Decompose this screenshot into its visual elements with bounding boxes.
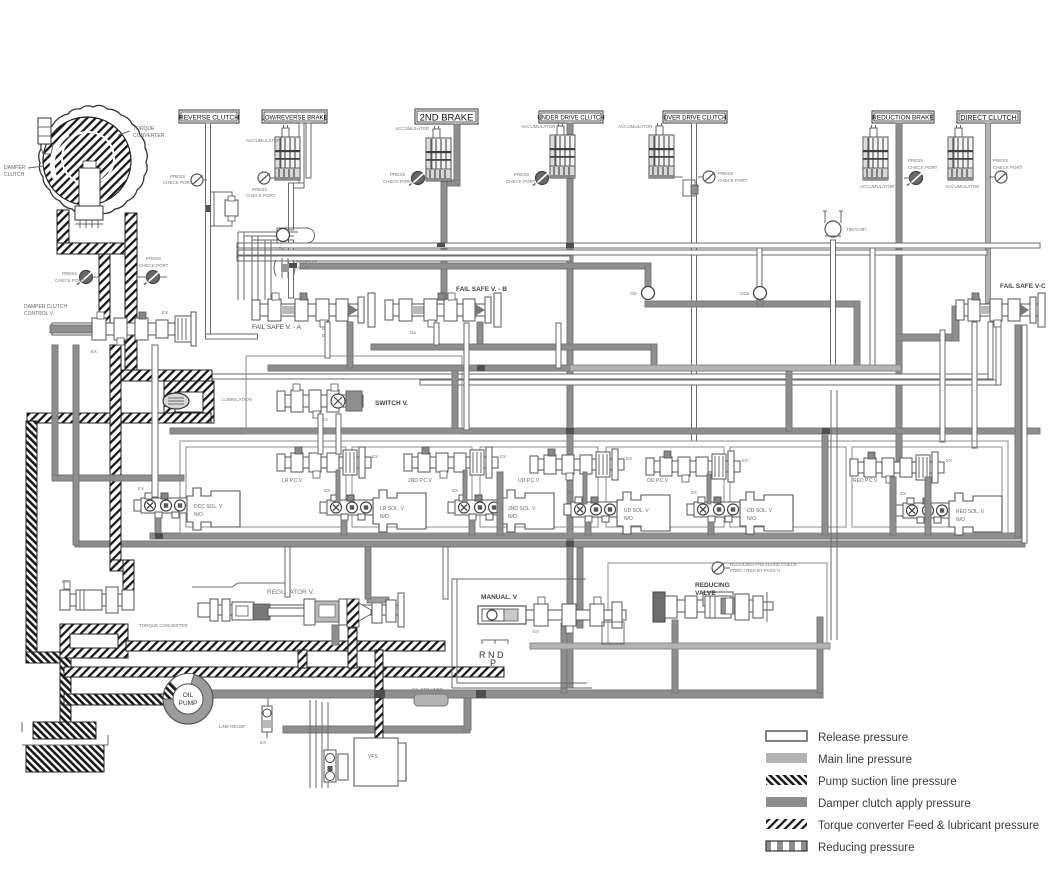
svg-text:OD P.C.V: OD P.C.V <box>647 478 669 484</box>
node fail safe A white nest verticals <box>238 232 271 300</box>
svg-text:MANUAL. V: MANUAL. V <box>481 594 518 601</box>
svg-text:ODa: ODa <box>740 291 750 296</box>
svg-text:REDUCING PRESSURE CHECK: REDUCING PRESSURE CHECK <box>730 562 797 567</box>
fail safe valve C <box>956 293 1045 327</box>
svg-text:PRESS: PRESS <box>146 256 161 261</box>
lubrication oval <box>163 393 189 409</box>
wire switch valve outlet gray vertical <box>452 371 458 431</box>
wire fail safe A stub gray <box>347 322 353 368</box>
line relief valve <box>262 706 272 738</box>
switch valve <box>277 384 363 418</box>
node box DCC group <box>186 447 346 527</box>
svg-text:CONVERTER: CONVERTER <box>133 133 165 139</box>
svg-text:EX: EX <box>533 629 539 634</box>
wire horizontal gray bundle y541 <box>75 541 1025 547</box>
svg-text:OD SOL. V: OD SOL. V <box>747 508 773 514</box>
legend swatch release pressure <box>766 731 807 741</box>
oil pan lip lines <box>22 722 108 745</box>
wire white drop to ball2 <box>757 248 762 290</box>
oil pump <box>163 673 213 724</box>
wire low/reverse down to check ball <box>289 183 294 230</box>
wire tc bottom outlet hatched vertical <box>125 213 137 378</box>
OD sol box <box>740 492 793 534</box>
svg-text:VFS: VFS <box>368 754 378 760</box>
accumulator low/reverse <box>275 125 300 180</box>
svg-text:2ND BRAKE: 2ND BRAKE <box>420 113 474 124</box>
leader damper clutch <box>28 166 44 168</box>
label box OVER DRIVE CLUTCH <box>663 111 727 123</box>
node big box PCV row outer <box>180 441 1008 533</box>
wire tc hatched horizontal to lubrication <box>120 370 212 381</box>
svg-text:CHECK PORT: CHECK PORT <box>718 178 748 183</box>
svg-text:ACCUMULATOR: ACCUMULATOR <box>246 138 281 143</box>
damping valve component <box>274 258 295 278</box>
wire gray drop to bundle x786 <box>786 371 792 431</box>
svg-text:CHECK PORT: CHECK PORT <box>139 263 169 268</box>
torque converter hub below <box>75 206 103 220</box>
wire fail safe C inlet riser <box>952 306 959 341</box>
svg-text:Main line pressure: Main line pressure <box>818 754 912 766</box>
svg-text:P: P <box>490 658 496 668</box>
svg-text:PRESS: PRESS <box>62 271 77 276</box>
torque converter left lug <box>38 118 51 144</box>
svg-text:CHECK PORT: CHECK PORT <box>506 179 536 184</box>
damper clutch control valve <box>50 312 196 346</box>
svg-text:REVERSE CLUTCH: REVERSE CLUTCH <box>179 115 239 122</box>
wire lr sol drop <box>341 520 347 535</box>
fail safe valve A <box>252 293 375 327</box>
svg-text:CLUTCH: CLUTCH <box>4 172 25 178</box>
node reducing area light rail <box>530 643 830 649</box>
svg-text:EX: EX <box>626 456 632 461</box>
label box REVERSE CLUTCH <box>179 110 239 123</box>
wire white vertical x872 <box>870 248 875 368</box>
legend swatch torque converter feed <box>766 819 807 829</box>
node box OD group <box>730 447 846 527</box>
wire 2nd brake gray feed vertical b <box>441 180 447 300</box>
svg-text:N/O: N/O <box>624 516 633 522</box>
svg-text:N/O: N/O <box>194 512 203 518</box>
overdrive bypass pocket <box>673 177 699 196</box>
wire hatched converter box elbow <box>60 624 128 658</box>
wire hatched link regulator to y668 <box>348 628 357 668</box>
svg-text:UD SOL. V: UD SOL. V <box>624 508 649 514</box>
svg-text:Torque converter Feed & lubric: Torque converter Feed & lubricant pressu… <box>818 820 1039 832</box>
wire hatched elbow bottom left <box>26 652 70 663</box>
svg-text:ACCUMULATOR: ACCUMULATOR <box>860 184 895 189</box>
LR solenoid spool <box>320 495 374 520</box>
svg-text:EX: EX <box>62 579 68 584</box>
wire horizontal white bundle third <box>237 256 570 261</box>
wire riser to fail safe C b <box>996 322 1001 385</box>
wire fail safe B outlet drop <box>651 344 657 369</box>
svg-text:LRa: LRa <box>276 246 285 251</box>
wire 2nd brake gray feed vertical a <box>454 124 460 184</box>
oil pan lower hatched <box>26 745 104 772</box>
wire fail safe C outlet vertical <box>1015 325 1021 537</box>
wire tc hatched vertical to damper valve <box>99 254 110 324</box>
node box UD group <box>606 447 724 527</box>
wire bundle to regulator gray <box>365 547 371 599</box>
node line relief stem <box>267 698 269 710</box>
wire lubrication long horizontal hatched <box>27 413 211 423</box>
wire bottom main line gray <box>205 690 823 698</box>
svg-text:PRESS: PRESS <box>908 158 923 163</box>
svg-text:N/O: N/O <box>747 516 756 522</box>
wire fail safe C stub down <box>972 322 977 448</box>
node big box around switch region <box>246 356 462 434</box>
wire horizontal white bundle second <box>237 250 987 255</box>
wire left tall hatched vertical <box>26 421 37 659</box>
2ND PCV spool <box>404 447 498 478</box>
svg-text:T88-5-087: T88-5-087 <box>846 227 867 232</box>
svg-text:LOW/REVERSE BRAKE: LOW/REVERSE BRAKE <box>261 116 327 122</box>
svg-text:FAIL SAFE V-C: FAIL SAFE V-C <box>1000 283 1046 290</box>
wire bundle to regulator white <box>285 547 290 597</box>
wire horizontal white bundle upper <box>237 243 1040 248</box>
svg-text:LUBRICATION: LUBRICATION <box>222 397 252 402</box>
svg-text:2ND P.C.V: 2ND P.C.V <box>408 478 432 484</box>
wire fail safe A stub white <box>325 322 330 358</box>
accumulator 2nd <box>426 126 451 181</box>
wire red sol drop <box>890 477 896 535</box>
svg-text:PRESS: PRESS <box>252 187 267 192</box>
wire direct clutch feed vertical <box>986 123 991 303</box>
wire hatched feed to pump <box>64 694 165 705</box>
svg-text:EX: EX <box>691 490 697 495</box>
wire horizontal white rail y380 <box>420 380 999 385</box>
svg-text:N/O: N/O <box>380 514 389 520</box>
wire fail safe C outlet vertical b <box>1022 325 1027 543</box>
wire lubrication loop hatched <box>164 381 214 423</box>
RED sol box <box>949 493 1002 535</box>
svg-text:CHECK PORT: CHECK PORT <box>383 179 413 184</box>
wire gray rail y303 <box>645 301 860 307</box>
label box DIRECT CLUTCH <box>957 111 1020 123</box>
torque converter hatched body <box>43 117 131 205</box>
node box 2ND group <box>480 447 598 527</box>
check ball lr damping <box>277 228 315 243</box>
svg-text:PORT / RED BY-PASS O: PORT / RED BY-PASS O <box>730 568 781 573</box>
wire fail safe B stub white right <box>464 323 469 430</box>
node manual valve white box <box>452 579 592 688</box>
svg-text:DIRECT CLUTCH: DIRECT CLUTCH <box>960 115 1016 122</box>
svg-text:EX: EX <box>900 491 906 496</box>
svg-text:FAIL SAFE V. - A: FAIL SAFE V. - A <box>252 324 302 331</box>
wire ud pcv drop gray <box>583 472 587 504</box>
svg-text:CHECK PORT: CHECK PORT <box>908 165 938 170</box>
svg-text:UD P.C.V: UD P.C.V <box>518 478 540 484</box>
svg-text:ACCUMULATOR: ACCUMULATOR <box>395 126 430 131</box>
wire horizontal gray main rail y366 <box>268 365 570 371</box>
wire gray elbow down to ball1 <box>645 266 651 290</box>
svg-text:EX: EX <box>260 740 266 745</box>
wire hatched link y650 to y668 <box>298 650 307 668</box>
svg-text:EX: EX <box>372 454 378 459</box>
reducing valve <box>653 592 773 622</box>
UD PCV spool <box>530 449 624 480</box>
node right white risers <box>831 390 837 640</box>
check port overdrive <box>703 171 715 183</box>
svg-text:ACCUMULATOR: ACCUMULATOR <box>521 124 556 129</box>
svg-text:OD: OD <box>630 291 638 296</box>
svg-text:Reducing pressure: Reducing pressure <box>818 842 915 854</box>
OD solenoid spool <box>687 497 741 522</box>
svg-text:EX: EX <box>162 310 168 315</box>
wire reducing drop gray left <box>561 623 567 693</box>
svg-text:VALVE: VALVE <box>296 265 310 270</box>
svg-text:2ND SOL. V: 2ND SOL. V <box>508 506 536 512</box>
svg-text:EX: EX <box>500 454 506 459</box>
svg-text:DAMPER: DAMPER <box>4 165 26 171</box>
wire 2nd sol drop <box>469 520 475 535</box>
node vfs white risers <box>310 700 328 788</box>
legend swatch reducing pressure <box>766 841 807 851</box>
wire low/reverse brake feed vertical b <box>306 123 311 178</box>
wire switch to lr pcv white <box>318 414 323 454</box>
node reducing valve white box <box>608 563 827 643</box>
node box RED group <box>852 447 1002 527</box>
wire lr pcv drop <box>497 472 503 535</box>
wire gray drop x857 to rail <box>854 301 860 368</box>
torque converter hub ticks <box>75 220 103 228</box>
wire tc outlet left hatched vertical <box>57 210 69 248</box>
label box 2ND BRAKE <box>415 109 478 124</box>
wire reduction brake gray feed vertical <box>896 123 902 463</box>
svg-text:Pump suction line pressure: Pump suction line pressure <box>818 776 957 788</box>
svg-text:EX: EX <box>568 490 574 495</box>
regulator valve <box>192 583 404 627</box>
check port reducing <box>712 562 724 574</box>
svg-text:DCC SOL. V: DCC SOL. V <box>194 504 223 510</box>
svg-text:CONTROL V.: CONTROL V. <box>24 311 54 317</box>
wire riser to fail safe C a <box>988 322 993 379</box>
svg-text:LR SOL. V: LR SOL. V <box>380 506 405 512</box>
check port damper left dark <box>77 271 93 285</box>
svg-text:DAMPING: DAMPING <box>296 259 318 264</box>
svg-text:N/O: N/O <box>508 514 517 520</box>
accumulator reduction <box>863 125 888 180</box>
wire hatched drop to vfs <box>375 650 383 738</box>
wire od sol drop <box>708 522 714 535</box>
svg-text:REDUCTION BRAKE: REDUCTION BRAKE <box>872 115 933 122</box>
label box UNDER DRIVE CLUTCH <box>537 111 604 123</box>
wire horizontal white rail y374 <box>186 374 993 379</box>
svg-text:PRESS: PRESS <box>514 172 529 177</box>
LR sol box <box>373 490 426 532</box>
wire switch to pcv white b <box>336 414 341 454</box>
wire hatched vertical to pan <box>60 652 71 732</box>
RED PCV spool <box>850 452 944 483</box>
wire horizontal gray run y265 <box>300 263 651 269</box>
wire damper valve gray out a <box>52 345 58 478</box>
wire reverse clutch feed vertical <box>206 123 211 339</box>
svg-text:REGULATOR V.: REGULATOR V. <box>267 589 314 596</box>
wire regulator gray drop <box>332 625 339 645</box>
wire ud sol drop <box>585 522 591 535</box>
wire fail safe B stub white mid <box>556 323 561 368</box>
wire reduction elbow to fail safe C <box>896 334 958 341</box>
svg-text:VALVE: VALVE <box>695 590 716 597</box>
label box REDUCTION BRAKE <box>872 111 934 123</box>
svg-text:OVER DRIVE CLUTCH: OVER DRIVE CLUTCH <box>663 116 726 122</box>
svg-text:OIL: OIL <box>183 692 194 699</box>
svg-text:LINE RELIEF: LINE RELIEF <box>219 724 246 729</box>
wire hatched elbow to relief <box>110 560 134 571</box>
wire hatched long run y669 <box>64 667 504 677</box>
2ND sol box <box>501 490 554 532</box>
wire low/reverse ball to fail safe A <box>289 240 294 298</box>
oil strainer <box>414 694 448 706</box>
OD PCV spool <box>646 451 740 482</box>
fail safe valve B <box>385 293 501 327</box>
wire fail safe B outlet down <box>477 322 483 348</box>
manual detent box <box>602 622 624 644</box>
svg-text:DAMPER CLUTCH: DAMPER CLUTCH <box>24 304 67 310</box>
check port underdrive dark <box>533 172 549 186</box>
wire reverse clutch elbow to fail safe A <box>206 334 258 339</box>
legend swatch pump suction <box>766 775 807 785</box>
vfs solenoid spool <box>324 750 348 782</box>
wire vfs feed gray horizontal <box>283 726 470 733</box>
wire 2nd pcv drop gray <box>463 470 467 502</box>
accumulator underdrive <box>550 123 575 178</box>
check port reverse <box>191 174 203 186</box>
junction ticks dark <box>155 243 830 698</box>
svg-text:EX: EX <box>452 488 458 493</box>
wire od area riser <box>822 432 828 535</box>
torque converter inner white crescent <box>52 134 68 178</box>
tc relief valve left <box>60 581 134 613</box>
wire vfs feed gray riser <box>464 698 471 730</box>
svg-text:SWITCH V.: SWITCH V. <box>375 400 408 407</box>
svg-text:UNDER DRIVE CLUTCH: UNDER DRIVE CLUTCH <box>537 116 604 122</box>
wire od pcv drop gray <box>707 474 711 504</box>
node fail safe A nest top ties <box>238 232 298 240</box>
2ND solenoid spool <box>448 495 502 520</box>
svg-text:PRESS: PRESS <box>390 172 405 177</box>
wire red sol drop b <box>925 477 931 535</box>
wire direct clutch branch down right <box>940 330 945 442</box>
svg-text:CHECK PORT: CHECK PORT <box>163 180 193 185</box>
wire thermo valve stem <box>831 240 836 368</box>
wire low/reverse step left <box>289 183 305 188</box>
shifter R N D P <box>482 640 508 644</box>
wire over drive clutch feed vertical <box>692 123 697 441</box>
svg-text:FAIL SAFE V. - B: FAIL SAFE V. - B <box>456 286 507 293</box>
svg-text:ACCUMULATOR: ACCUMULATOR <box>618 124 653 129</box>
DCC solenoid spool <box>134 493 188 518</box>
oil pan upper hatched <box>33 722 96 739</box>
wire lr pcv drop gray <box>336 470 340 502</box>
wire under drive clutch gray feed vertical <box>567 123 573 688</box>
check port direct <box>995 171 1007 183</box>
svg-text:EX: EX <box>138 486 144 491</box>
torque converter outer wavy shell <box>39 105 148 215</box>
thermo valve <box>825 221 841 237</box>
svg-text:CHECK PORT: CHECK PORT <box>55 278 85 283</box>
wire low/reverse brake feed vertical <box>299 123 304 187</box>
svg-text:CHECK PORT: CHECK PORT <box>246 193 276 198</box>
torque converter inner white hub <box>79 168 100 208</box>
legend swatch main line pressure <box>766 753 807 763</box>
check ball od right <box>754 287 767 300</box>
svg-text:PUMP: PUMP <box>179 700 198 707</box>
svg-text:REDUCING: REDUCING <box>695 582 730 589</box>
wire bundle to regulator white b <box>443 547 448 599</box>
svg-text:PRESS: PRESS <box>718 171 733 176</box>
svg-text:RED SOL. V: RED SOL. V <box>956 509 985 515</box>
svg-text:ACCUMULATOR: ACCUMULATOR <box>945 184 980 189</box>
wire damper valve white out c <box>152 345 158 497</box>
UD sol box <box>617 492 670 534</box>
svg-text:RED P.C.V: RED P.C.V <box>853 478 878 484</box>
check ball od left <box>642 287 655 300</box>
svg-text:TORQUE: TORQUE <box>133 126 155 132</box>
torque converter inner ring hint <box>62 132 114 184</box>
svg-text:TORQUE CONVERTER: TORQUE CONVERTER <box>139 623 188 628</box>
wire horizontal gray rail y428 <box>170 428 1040 434</box>
reverse loop bypass <box>210 192 232 226</box>
wire damper valve gray out b <box>73 345 79 545</box>
svg-text:EX: EX <box>91 349 97 354</box>
wire manual valve gray feed b <box>577 548 583 628</box>
reverse loop tick <box>206 205 211 212</box>
accumulator overdrive <box>649 123 674 178</box>
svg-text:CHECK PORT: CHECK PORT <box>993 165 1023 170</box>
wire ball2 stem down <box>757 298 763 306</box>
reverse loop valve block <box>225 200 238 216</box>
wire fail safe B stub white left <box>434 323 439 345</box>
accumulator direct <box>948 125 973 180</box>
svg-text:Damper clutch apply pressure: Damper clutch apply pressure <box>818 798 971 810</box>
wire damper gray elbow a <box>52 475 184 481</box>
check port 2nd dark <box>409 172 425 186</box>
check port reduction dark <box>907 172 923 186</box>
svg-text:EX: EX <box>946 458 952 463</box>
vfs box <box>354 738 406 786</box>
wire damper valve hatched drop <box>110 345 121 567</box>
wire fail safe B outlet horizontal <box>371 344 657 350</box>
wire right riser gray <box>817 617 823 693</box>
svg-text:Release pressure: Release pressure <box>818 732 908 744</box>
UD solenoid spool <box>564 497 618 522</box>
wire hatched long run y643 <box>126 641 445 651</box>
svg-text:LR P.C.V: LR P.C.V <box>282 478 303 484</box>
manual valve <box>478 597 626 633</box>
svg-text:PRESS: PRESS <box>993 158 1008 163</box>
node box LR group <box>352 447 472 527</box>
svg-text:Da: Da <box>410 330 416 335</box>
legend swatch damper clutch apply <box>766 797 807 807</box>
wire reducing drop gray mid <box>672 620 678 693</box>
svg-text:OIL STRAINER: OIL STRAINER <box>412 687 444 692</box>
check port low/reverse <box>258 172 270 184</box>
leader torque converter <box>118 131 130 135</box>
DCC sol box <box>187 488 240 530</box>
wire hatched relief connect <box>123 560 134 594</box>
check port damper right dark <box>144 271 160 285</box>
label box LOW/REVERSE BRAKE <box>261 110 327 123</box>
RED solenoid spool <box>896 498 950 523</box>
wire dcc sol drop <box>155 518 161 535</box>
wire tc hatched horizontal top <box>57 243 133 254</box>
wire horizontal gray bundle y533 <box>150 533 1021 539</box>
svg-text:EX: EX <box>742 458 748 463</box>
LR PCV spool <box>277 447 371 478</box>
svg-text:N/O: N/O <box>956 517 965 523</box>
svg-text:EX: EX <box>324 488 330 493</box>
